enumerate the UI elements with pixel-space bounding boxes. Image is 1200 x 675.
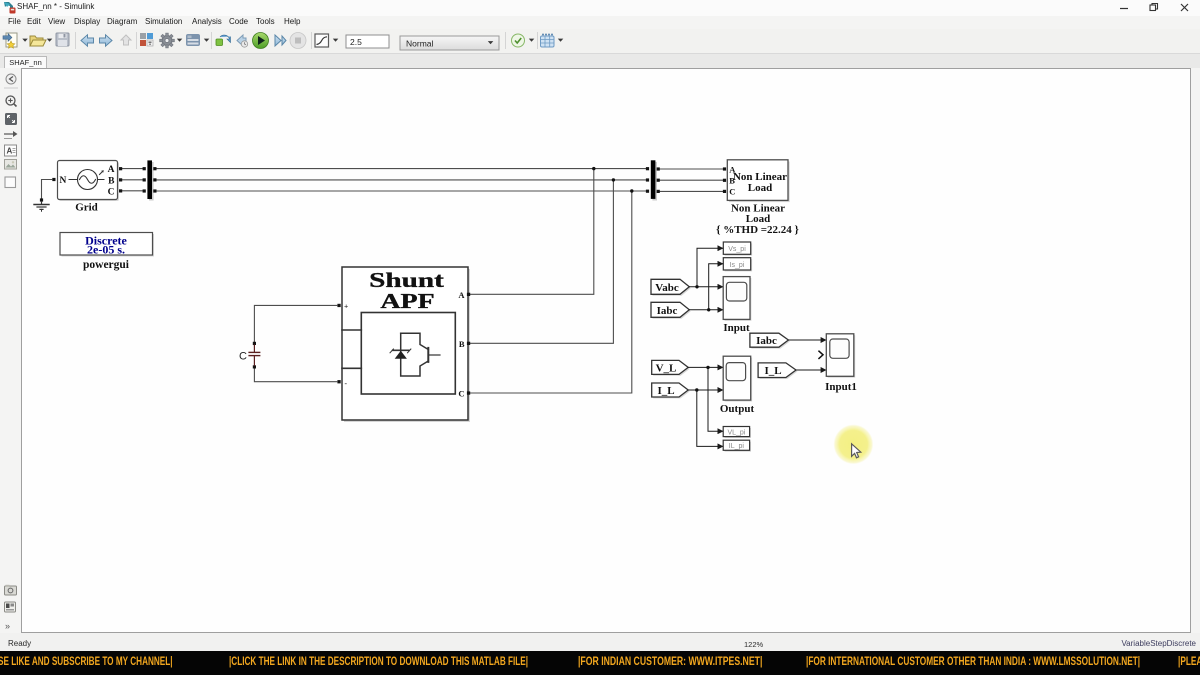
run (253, 33, 269, 49)
svg-text:Grid: Grid (75, 202, 98, 214)
table icon (541, 34, 555, 48)
wire V_L to scope Output (688, 366, 722, 368)
source Grid block (52, 161, 122, 214)
powergui block (60, 233, 154, 272)
tab bar (0, 54, 1200, 69)
load block Non Linear Load (716, 160, 799, 236)
APF port + (337, 304, 340, 307)
open (30, 36, 46, 46)
goto tag IL_pi (723, 440, 751, 452)
svg-text:powergui: powergui (83, 259, 130, 271)
model settings board (186, 34, 200, 46)
up (disabled) (121, 35, 131, 45)
new model (3, 33, 17, 48)
svg-text:C: C (729, 187, 735, 197)
cursor pointer (852, 444, 861, 458)
wire Iabc to Input1 (788, 339, 825, 341)
library browser (140, 33, 153, 46)
svg-text:I_L: I_L (764, 365, 781, 377)
subsystem Shunt APF (337, 267, 470, 422)
svg-text:Load: Load (748, 182, 772, 194)
goto tag Is_pi (723, 258, 752, 272)
svg-text:Output: Output (720, 403, 755, 415)
svg-text:C: C (108, 188, 115, 198)
wire N to ground (42, 180, 53, 199)
svg-text:APF: APF (380, 290, 434, 313)
scope Output (720, 356, 755, 415)
cursor highlight (833, 424, 873, 464)
bus B1 (three-phase bar) (143, 160, 157, 200)
update diagram (216, 35, 231, 45)
save (disabled) (56, 33, 69, 46)
hide browser button (6, 74, 16, 84)
stop time field (346, 35, 389, 48)
check icon (512, 34, 525, 47)
wire tap B to APF port B (469, 180, 613, 343)
node A junction (592, 167, 595, 170)
camera icon (5, 585, 17, 595)
capacitor C (239, 342, 260, 369)
back (81, 35, 94, 46)
sim data inspector (315, 34, 329, 47)
wire Iabc to scope Input (689, 309, 722, 311)
mode combo (400, 36, 499, 50)
svg-text:C: C (239, 351, 247, 363)
wire phase B (121, 179, 143, 181)
wire DC- (254, 342, 337, 382)
APF port A (467, 293, 470, 296)
marquee bar (0, 651, 1200, 675)
goto tag Vs_pi (723, 242, 752, 256)
wire I_L to scope Output (688, 389, 722, 391)
from tag V_L (652, 360, 690, 375)
left palette (0, 68, 21, 633)
node B junction (612, 178, 615, 181)
IGBT D1 icon (390, 333, 440, 376)
svg-text:I_L: I_L (657, 385, 674, 397)
svg-text:V_L: V_L (656, 363, 677, 375)
node C junction (630, 189, 633, 192)
svg-text:Vs_pi: Vs_pi (728, 246, 746, 253)
svg-text:A: A (108, 165, 115, 175)
wire I_L to Input1 (796, 369, 826, 371)
svg-text:Non Linear: Non Linear (733, 171, 787, 183)
from tag I_L (to Input1) (758, 363, 797, 379)
arrow tool (4, 131, 18, 139)
from tag Iabc (651, 302, 691, 318)
svg-text:N: N (60, 176, 67, 186)
from tag I_L (652, 383, 690, 398)
step forward (275, 35, 286, 46)
checkbox (5, 177, 16, 188)
wire Vabc to scope Input (689, 286, 722, 288)
svg-text:A: A (458, 290, 465, 300)
svg-text:B: B (108, 176, 115, 186)
svg-text:2e-05 s.: 2e-05 s. (87, 243, 125, 257)
wire junction to IL_pi (697, 390, 723, 446)
fit view (5, 113, 17, 125)
svg-text:Vabc: Vabc (655, 282, 679, 294)
forward (100, 35, 113, 46)
zoom tool (6, 96, 17, 107)
ground (34, 198, 49, 211)
svg-text:Iabc: Iabc (657, 305, 678, 317)
svg-text:VL_pi: VL_pi (727, 429, 745, 436)
viewmarks icon (5, 602, 16, 612)
svg-text:C: C (458, 389, 464, 399)
svg-text:Shunt: Shunt (369, 268, 444, 292)
wire junction to Vs_pi (697, 248, 723, 287)
svg-text:IL_pi: IL_pi (729, 443, 745, 450)
svg-text:Iabc: Iabc (756, 335, 777, 347)
step back (disabled-ish) (237, 35, 248, 47)
svg-text:Input1: Input1 (825, 381, 857, 393)
wire phase C (121, 190, 143, 192)
APF port C (467, 391, 470, 394)
wire junction to VL_pi (708, 367, 723, 431)
APF port - (337, 380, 340, 383)
wire DC+ (254, 305, 337, 341)
toolbar (0, 29, 1200, 54)
APF port B (467, 342, 470, 345)
svg-text:+: + (344, 302, 348, 311)
wire junction to Is_pi (709, 264, 723, 310)
from tag Iabc (to Input1) (750, 333, 790, 348)
gear (160, 33, 175, 48)
svg-text:Is_pi: Is_pi (730, 262, 745, 269)
menu bar (0, 16, 1200, 29)
svg-text:B: B (459, 339, 465, 349)
svg-text:{ %THD =22.24 }: { %THD =22.24 } (716, 224, 799, 236)
wire tap A to APF port A (469, 169, 594, 295)
window title bar (0, 0, 1200, 16)
wire phase A (bus1 to bus2) (121, 168, 143, 170)
wire tap C to APF port C (469, 191, 632, 393)
status bar (0, 633, 1200, 651)
bus B2 (three-phase bar) (646, 160, 660, 200)
stop (disabled) (290, 33, 306, 49)
scope Input (723, 277, 751, 334)
annotation tool (5, 145, 17, 156)
svg-text:Input: Input (723, 322, 750, 334)
from tag Vabc (651, 279, 691, 295)
scope Input1 (819, 334, 857, 393)
goto tag VL_pi (723, 427, 751, 439)
image annotation (5, 160, 17, 170)
